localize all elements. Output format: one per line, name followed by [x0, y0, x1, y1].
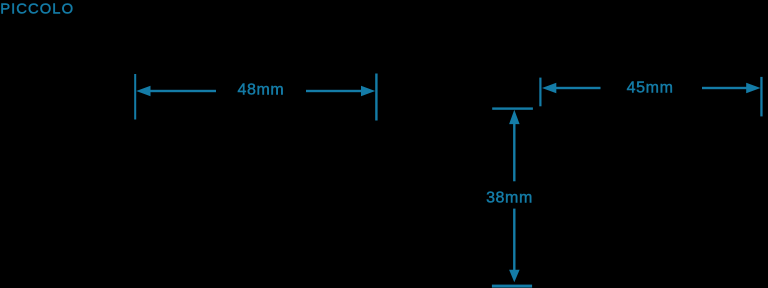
extension line right of 45mm dimension [760, 77, 762, 117]
svg-text:48mm: 48mm [237, 82, 284, 99]
svg-text:PICCOLO: PICCOLO [0, 2, 74, 18]
svg-text:45mm: 45mm [627, 79, 674, 96]
title PICCOLO [0, 2, 74, 18]
dimension line 48mm with outward arrowheads [136, 86, 375, 97]
dimension line 45mm with outward arrowheads [542, 83, 761, 94]
extension line left of 45mm dimension [539, 78, 541, 107]
extension line left of 48mm dimension [134, 74, 136, 120]
extension tick top of 38mm dimension [492, 107, 533, 109]
svg-text:38mm: 38mm [486, 190, 533, 207]
dimension label 45mm [627, 79, 674, 96]
dimension line 38mm vertical with outward arrowheads [509, 110, 519, 282]
extension tick bottom of 38mm dimension [492, 285, 532, 288]
dimension label 38mm [486, 190, 533, 207]
extension line right of 48mm dimension [375, 74, 377, 121]
dimension label 48mm [237, 82, 284, 99]
